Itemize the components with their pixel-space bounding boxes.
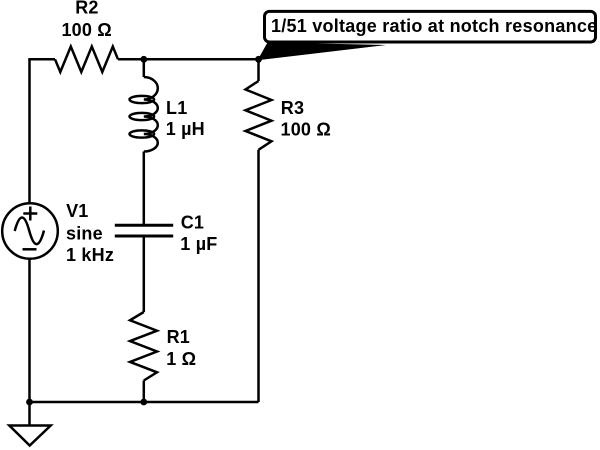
- capacitor C1: [115, 225, 173, 236]
- svg-text:R2: R2: [75, 0, 98, 17]
- wire R2 right lead to node A: [118, 58, 144, 61]
- wire C1 to R1: [143, 236, 146, 312]
- wire left vertical top (V1 top to top-left corner): [28, 59, 31, 203]
- svg-text:L1: L1: [166, 98, 187, 118]
- resistor R2: [55, 47, 118, 73]
- wire L1 top lead: [143, 59, 146, 77]
- wire R3 bottom lead: [257, 150, 260, 402]
- svg-text:sine: sine: [66, 224, 103, 244]
- node A (L1 top junction): [140, 56, 147, 63]
- wire R1 bottom lead: [143, 381, 146, 403]
- svg-text:1 Ω: 1 Ω: [166, 349, 196, 369]
- svg-text:1 µF: 1 µF: [180, 234, 217, 254]
- wire R2 left lead: [28, 58, 55, 61]
- node C (R1 bottom junction): [140, 399, 147, 406]
- svg-text:1 µH: 1 µH: [166, 119, 205, 139]
- ground: [9, 402, 50, 446]
- svg-text:100 Ω: 100 Ω: [61, 20, 111, 40]
- svg-text:V1: V1: [66, 201, 88, 221]
- voltage source V1: [2, 203, 58, 259]
- svg-text:R1: R1: [167, 327, 190, 347]
- svg-text:1 kHz: 1 kHz: [66, 245, 114, 265]
- wire bottom (ground node to R3 bottom): [30, 401, 259, 404]
- inductor L1: [130, 77, 158, 152]
- callout pointer: [258, 43, 387, 61]
- svg-text:1/51 voltage ratio at notch re: 1/51 voltage ratio at notch resonance: [271, 16, 597, 36]
- node B (R3 top junction): [255, 56, 262, 63]
- node D (ground junction): [26, 399, 33, 406]
- svg-text:100 Ω: 100 Ω: [281, 120, 331, 140]
- wire top (node A to node B): [144, 58, 259, 61]
- wire L1 to C1: [143, 152, 146, 226]
- wire R3 top lead: [257, 59, 260, 81]
- callout box: [265, 11, 596, 42]
- svg-text:R3: R3: [281, 98, 304, 118]
- wire left vertical bottom (V1 bottom to ground node): [28, 259, 31, 402]
- svg-text:C1: C1: [181, 213, 204, 233]
- resistor R1: [130, 312, 157, 381]
- resistor R3: [246, 81, 272, 150]
